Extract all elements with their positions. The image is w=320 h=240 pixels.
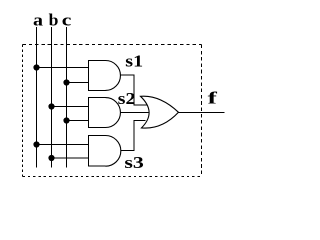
- svg-text:s2: s2: [118, 89, 136, 108]
- input line a: [36, 27, 38, 168]
- wire c to AND2: [67, 120, 89, 122]
- output wire f: [179, 111, 225, 113]
- svg-text:s1: s1: [125, 51, 143, 70]
- wire a to AND3: [37, 144, 89, 146]
- svg-text:b: b: [49, 11, 59, 30]
- junction dot a/s1: [33, 64, 39, 70]
- svg-text:c: c: [62, 11, 72, 30]
- wire c to AND1: [67, 82, 89, 84]
- wire AND3 output to OR: [121, 121, 146, 151]
- dashed enclosure box bottom edge: [23, 175, 202, 177]
- junction dot c/s1: [63, 79, 69, 85]
- dashed enclosure box left edge: [22, 45, 24, 177]
- AND gate s2 arc: [106, 98, 121, 128]
- input line b: [51, 27, 53, 168]
- wire b to AND3: [52, 157, 89, 159]
- junction dot a/s3: [33, 141, 39, 147]
- wire AND2 output to OR: [121, 112, 149, 114]
- wire b to AND2: [52, 106, 89, 108]
- dashed enclosure box top edge: [23, 44, 202, 46]
- AND gate s3 body: [89, 136, 106, 167]
- svg-text:s3: s3: [124, 153, 143, 172]
- junction dot b/s3: [48, 155, 54, 161]
- AND gate s1 body: [89, 61, 106, 91]
- wire AND1 output to OR: [121, 75, 148, 105]
- dashed enclosure box right edge: [201, 45, 203, 177]
- svg-text:f: f: [208, 89, 218, 108]
- AND gate s2 body: [89, 98, 106, 128]
- junction dot c/s2: [63, 117, 69, 123]
- input line c: [66, 27, 68, 168]
- AND gate s3 arc: [106, 136, 121, 167]
- AND gate s1 arc: [106, 61, 121, 91]
- OR gate: [141, 96, 179, 128]
- wire a to AND1: [37, 67, 89, 69]
- junction dot b/s2: [48, 103, 54, 109]
- svg-text:a: a: [33, 11, 44, 30]
